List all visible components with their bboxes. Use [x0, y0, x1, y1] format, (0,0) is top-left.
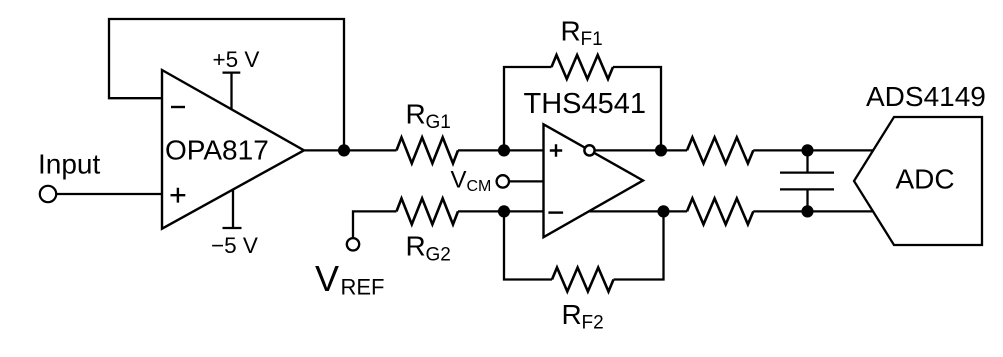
svg-text:R: R	[406, 231, 426, 262]
svg-text:V: V	[451, 167, 467, 194]
svg-text:V: V	[315, 258, 339, 299]
svg-text:+5 V: +5 V	[213, 47, 260, 72]
svg-text:F2: F2	[582, 313, 604, 334]
svg-text:R: R	[562, 299, 582, 330]
svg-text:REF: REF	[341, 275, 385, 300]
svg-text:Input: Input	[38, 149, 100, 180]
svg-text:G1: G1	[426, 112, 451, 133]
svg-text:CM: CM	[467, 178, 492, 195]
svg-text:ADS4149: ADS4149	[866, 81, 986, 112]
svg-text:OPA817: OPA817	[165, 135, 269, 166]
svg-text:R: R	[406, 99, 426, 130]
svg-text:R: R	[561, 16, 581, 47]
svg-text:−5 V: −5 V	[211, 233, 258, 258]
svg-text:THS4541: THS4541	[524, 88, 647, 120]
svg-text:ADC: ADC	[896, 164, 955, 195]
svg-text:F1: F1	[581, 29, 603, 50]
svg-text:G2: G2	[426, 245, 451, 266]
